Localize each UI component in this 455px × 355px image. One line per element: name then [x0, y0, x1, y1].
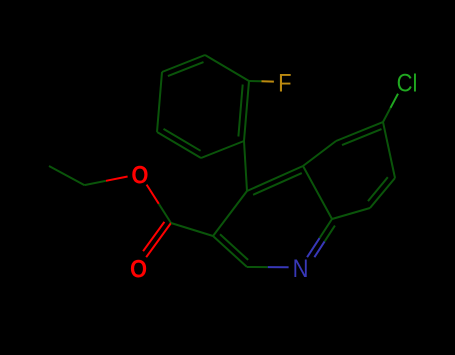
double bond C5=C6 line1 — [336, 122, 383, 141]
double bond C5=C6 line2 — [342, 129, 382, 145]
bond C2p-C3p — [205, 55, 249, 81]
bond C9-C3 — [171, 223, 213, 236]
double bond C4=C4a line1 — [247, 166, 303, 191]
svg-text:O: O — [130, 255, 147, 283]
double bond N1=C8a line2 (half A) — [314, 241, 324, 257]
svg-text:Cl: Cl — [397, 69, 418, 97]
bond O1-C9 ester (half A) — [147, 185, 159, 204]
double bond C5p=C6p line1 — [157, 132, 201, 158]
double bond C1p=C2p line1 — [244, 81, 249, 141]
double bond C4=C4a line2 — [253, 173, 302, 195]
double bond C5p=C6p line2 — [164, 129, 201, 151]
double bond C7=C8 line2 — [368, 177, 388, 201]
bond CH2-O1 ester (half B) — [106, 177, 128, 181]
double bond C9=O2 carbonyl line1 — [146, 223, 171, 257]
bond C2-N1 (half B) — [268, 266, 289, 268]
bond C6-C7 — [383, 122, 395, 178]
bond C6p-C1p — [201, 141, 244, 158]
bond C3-C4 — [213, 191, 247, 236]
svg-text:F: F — [278, 69, 291, 97]
double bond C1p=C2p line2 — [238, 85, 242, 137]
bond C8-C8a — [332, 208, 370, 219]
bond CH3-CH2 ethyl — [49, 166, 84, 185]
bond C4p-C5p — [157, 72, 162, 132]
bond CH2-O1 ester (half A) — [84, 181, 106, 185]
svg-text:O: O — [131, 161, 148, 189]
double bond C3=C2 line2 — [220, 234, 248, 260]
double bond C7=C8 line1 — [370, 178, 395, 208]
bond O1-C9 ester (half B) — [159, 204, 171, 223]
bond C4a-C5 — [303, 141, 336, 166]
double bond C3=C2 line1 — [213, 236, 247, 267]
double bond N1=C8a line1 (half B) — [320, 219, 332, 238]
bond C4a-C8a fusion — [303, 166, 332, 219]
double bond C9=O2 carbonyl line2 — [143, 222, 164, 251]
svg-text:N: N — [293, 255, 309, 283]
double bond C3p=C4p line1 — [162, 55, 205, 72]
bond C2-N1 (half A) — [247, 266, 268, 268]
bond C2p-F (half A) — [249, 80, 262, 82]
bond C6-Cl (half A) — [383, 108, 391, 122]
double bond C3p=C4p line2 — [168, 62, 204, 76]
double bond N1=C8a line2 (half B) — [325, 226, 335, 242]
bond C2p-F (half B) — [262, 80, 274, 82]
bond C4-C1p phenyl link — [244, 141, 247, 191]
double bond N1=C8a line1 (half A) — [307, 238, 320, 257]
bond C6-Cl (half B) — [391, 94, 399, 108]
